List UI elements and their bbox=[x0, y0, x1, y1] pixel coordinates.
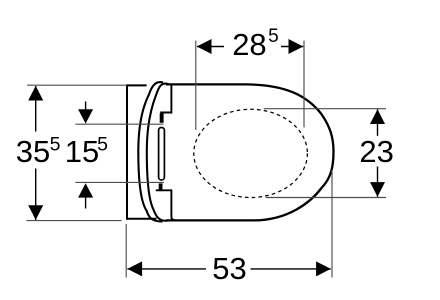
svg-text:5: 5 bbox=[50, 134, 61, 156]
wc body outline bbox=[166, 84, 334, 220]
svg-text:35: 35 bbox=[16, 134, 50, 169]
dim 35.5 line upper segment bbox=[35, 86, 37, 132]
lid back edge inner curve bbox=[147, 84, 169, 221]
dim 15.5 extension line bottom bbox=[75, 181, 164, 183]
hinge pin top bbox=[160, 113, 164, 122]
dim 28.5 extension line left bbox=[195, 41, 197, 130]
dim 35.5 line lower segment bbox=[35, 169, 37, 221]
dim 28.5 extension line right bbox=[303, 41, 305, 128]
lid left edge step top bbox=[160, 85, 171, 113]
dim 28.5 arrow right bbox=[289, 39, 304, 54]
lid left edge step bottom bbox=[156, 190, 176, 220]
svg-text:23: 23 bbox=[359, 134, 393, 169]
bowl rim dashed ellipse bbox=[194, 109, 308, 197]
wc ceramic back panel bbox=[127, 85, 157, 218]
dim 15.5 lower shaft bbox=[85, 198, 87, 209]
dim 15.5 arrow down to top line bbox=[78, 109, 93, 123]
dim 53 line right segment bbox=[251, 268, 331, 270]
dim 35.5 arrow down bbox=[28, 205, 43, 220]
dim 35.5 extension line top bbox=[27, 84, 127, 86]
dim 53 extension line right bbox=[331, 170, 333, 278]
lid back edge outer curve bbox=[138, 82, 163, 221]
dim 15.5 extension line top bbox=[75, 123, 163, 125]
dim 23 arrow down bbox=[370, 182, 385, 197]
dim 23 upper segment bbox=[377, 109, 379, 136]
svg-text:5: 5 bbox=[97, 134, 108, 156]
dim 28.5 arrow left bbox=[197, 39, 212, 54]
dim 53 arrow left bbox=[127, 261, 142, 276]
dim 15.5 upper shaft bbox=[85, 102, 87, 111]
svg-text:15: 15 bbox=[65, 134, 99, 169]
dim 35.5 extension line bottom bbox=[26, 220, 121, 222]
dim 28.5 line left segment bbox=[197, 46, 224, 48]
dim 23 arrow up bbox=[370, 109, 385, 124]
hinge axis slot bbox=[159, 128, 165, 181]
dim 23 extension line top bbox=[264, 108, 386, 110]
dim 53 arrow right bbox=[316, 261, 331, 276]
svg-text:28: 28 bbox=[232, 27, 266, 62]
dim 35.5 arrow up bbox=[28, 86, 43, 101]
svg-text:53: 53 bbox=[212, 251, 246, 286]
dim 23 lower segment bbox=[377, 167, 379, 197]
hinge pin bottom bbox=[159, 183, 163, 189]
dim 53 extension line left bbox=[125, 224, 127, 278]
svg-text:5: 5 bbox=[268, 26, 279, 47]
dim 15.5 arrow up to bottom line bbox=[78, 183, 93, 197]
dim 53 line left segment bbox=[127, 268, 206, 270]
dim 23 extension line bottom bbox=[266, 197, 386, 199]
dim 28.5 line right segment bbox=[281, 46, 303, 48]
